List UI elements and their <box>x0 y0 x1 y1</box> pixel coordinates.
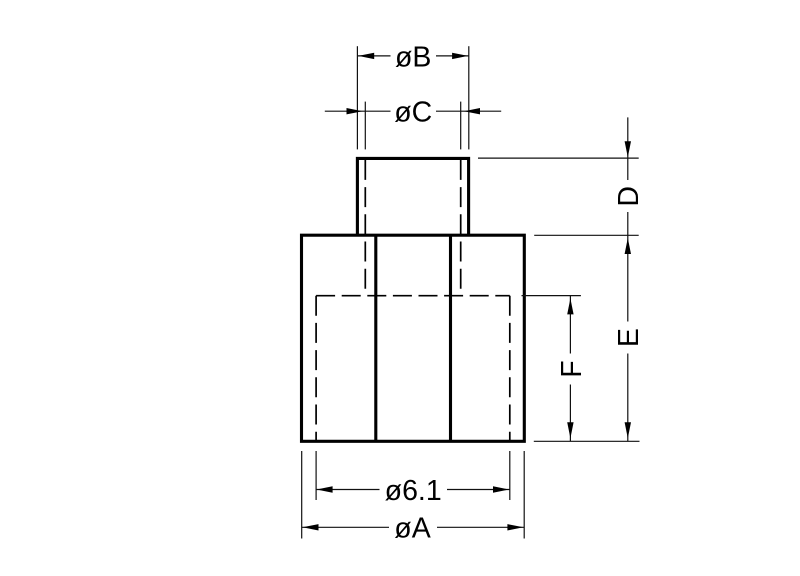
arrowhead F bottom <box>567 422 573 438</box>
svg-text:øB: øB <box>395 41 431 73</box>
extension lines øC <box>365 102 460 150</box>
extension line top of neck (D) <box>478 157 639 159</box>
body inner step edge left <box>374 235 377 441</box>
dimension line F <box>569 296 571 442</box>
arrowhead øA left <box>303 524 319 530</box>
dimension line øC <box>325 110 501 112</box>
text F halo <box>556 354 583 385</box>
dimension line ø6.1 <box>316 489 510 491</box>
text D halo <box>613 180 640 212</box>
svg-text:ø6.1: ø6.1 <box>385 475 442 507</box>
svg-text:F: F <box>556 360 588 377</box>
arrowhead D top <box>625 141 631 157</box>
extension lines øA bottom <box>302 451 525 539</box>
arrowhead øC right <box>464 108 480 114</box>
arrowhead øB right <box>452 53 468 59</box>
neck cylinder outline <box>357 158 468 235</box>
text øB halo <box>391 43 437 70</box>
body outline <box>302 235 525 441</box>
arrowhead øA right <box>507 524 523 530</box>
arrowhead øB left <box>358 53 374 59</box>
svg-text:D: D <box>613 186 645 207</box>
text øA halo <box>389 515 437 542</box>
arrowhead F top <box>567 298 573 314</box>
extension lines ø6.1 bottom <box>316 451 510 500</box>
extension line hole bottom (F) <box>522 295 581 297</box>
dimension line øA <box>302 526 525 528</box>
dimension line øB <box>357 55 468 57</box>
arrowhead ø6.1 right <box>493 486 509 492</box>
text E halo <box>613 322 640 354</box>
arrowhead øC left <box>347 108 363 114</box>
extension lines øB <box>357 46 468 149</box>
dimension line D and E <box>627 117 629 441</box>
arrowhead D bottom / E top <box>625 238 631 254</box>
svg-text:E: E <box>613 328 645 347</box>
hidden hole ø6.1 dashed rectangle <box>316 296 510 442</box>
text ø6.1 halo <box>380 477 448 504</box>
svg-text:øC: øC <box>394 97 432 129</box>
extension line body bottom (E/F) <box>534 440 640 442</box>
arrowhead E bottom <box>625 422 631 438</box>
arrowhead ø6.1 left <box>317 486 333 492</box>
body inner step edge right <box>449 235 452 441</box>
extension line top of body (D/E) <box>534 234 639 236</box>
text øC halo <box>391 98 437 125</box>
hidden hole lines øC through neck and body <box>365 160 460 294</box>
svg-text:øA: øA <box>394 513 430 545</box>
